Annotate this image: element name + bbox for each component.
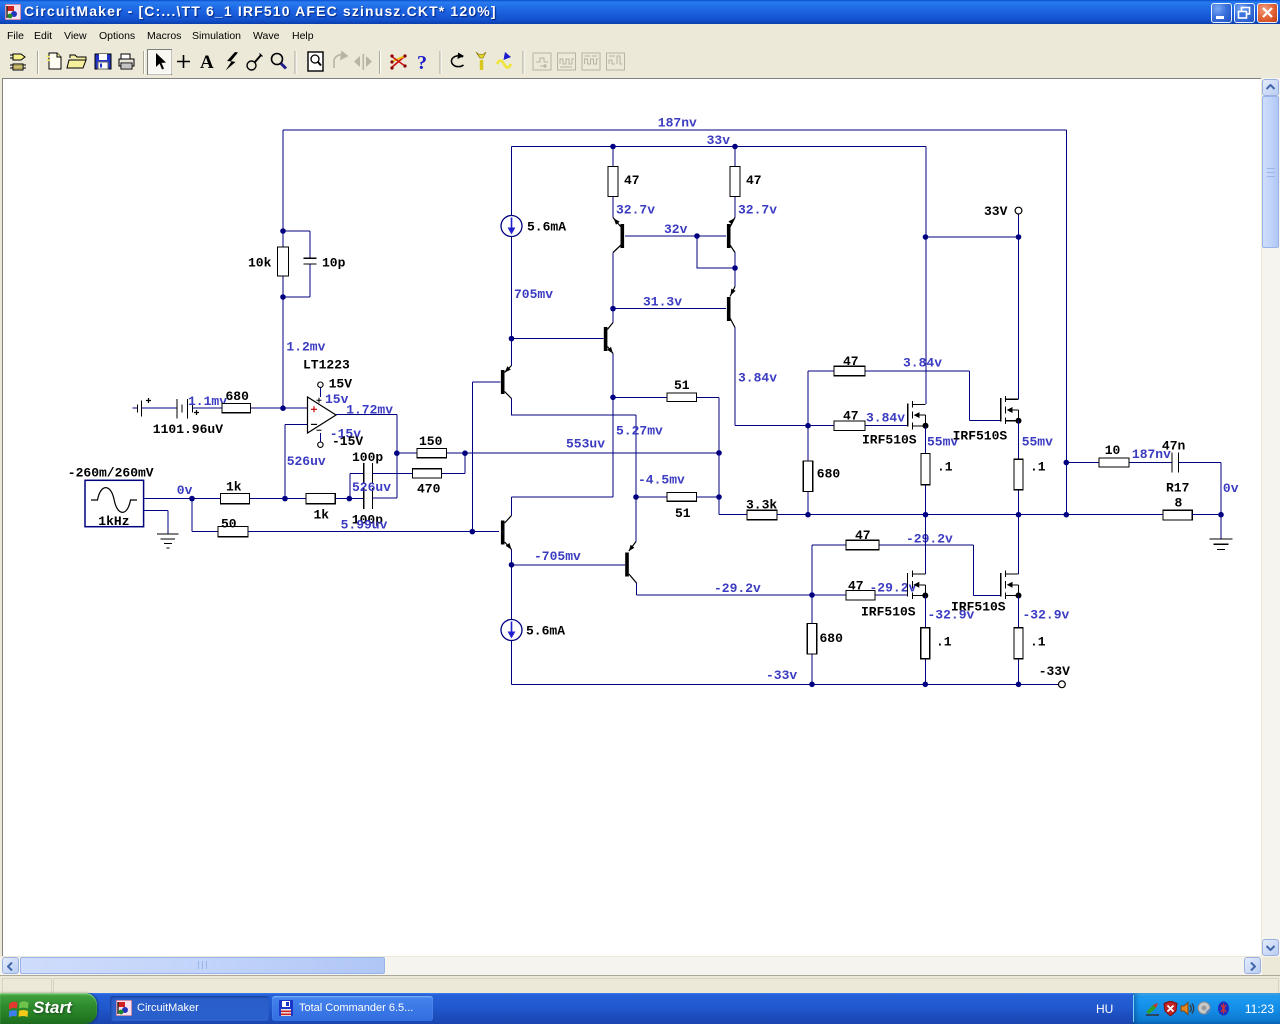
battery V2 input offset: [133, 398, 152, 417]
19 wave probe: [497, 52, 511, 68]
wire -705mv base line: [512, 564, 626, 566]
20-23 disabled scopes: [533, 53, 625, 70]
wire lower cap to output node: [372, 453, 397, 498]
svg-text:-29.2v: -29.2v: [906, 532, 953, 547]
svg-text:47: 47: [843, 354, 859, 369]
18 wrench: [476, 52, 486, 70]
svg-text:5.6mA: 5.6mA: [526, 624, 565, 639]
13 rotate disabled: [334, 52, 347, 68]
resistor 47 gate lower A: [846, 528, 1001, 596]
svg-text:47: 47: [855, 528, 871, 543]
node dot -29.2v branch: [809, 592, 815, 598]
wire output node vertical: [1065, 130, 1067, 515]
svg-text:33V: 33V: [984, 204, 1008, 219]
svg-text:3.3k: 3.3k: [746, 498, 777, 513]
wire op-amp output: [336, 415, 397, 454]
resistor 680 input: [193, 389, 308, 413]
svg-text:680: 680: [820, 631, 844, 646]
node dot 553uv left: [462, 450, 468, 456]
svg-text:.1: .1: [936, 635, 952, 650]
node dot base rail: [470, 529, 476, 535]
svg-text:IRF510S: IRF510S: [951, 600, 1006, 615]
wire Q1-Q2 base link 32v: [625, 235, 726, 237]
svg-text:47: 47: [843, 409, 859, 424]
resistor 47 top-left: [608, 147, 640, 218]
svg-text:51: 51: [674, 378, 690, 393]
7 plus: [177, 55, 190, 68]
resistor R17 8ohm load: [1163, 481, 1221, 521]
svg-text:47: 47: [848, 579, 864, 594]
wire 32v node to Q2 collector: [697, 236, 735, 268]
capacitor 10p: [283, 231, 346, 297]
svg-text:-705mv: -705mv: [534, 549, 581, 564]
svg-text:47n: 47n: [1162, 439, 1186, 454]
wire 50 rail to transistor bases: [248, 531, 499, 533]
resistor 47 top-right: [730, 147, 762, 218]
node dot 33v terminal drop: [1016, 234, 1022, 240]
svg-text:33v: 33v: [707, 133, 731, 148]
terminal 33V: [984, 204, 1022, 219]
wire 51 node drop: [718, 397, 720, 514]
wire 10k to op-amp plus input: [282, 297, 284, 408]
svg-text:705mv: 705mv: [514, 287, 553, 302]
svg-text:3.84v: 3.84v: [738, 371, 777, 386]
svg-text:3.84v: 3.84v: [903, 356, 942, 371]
mosfet M4 IRF510S lower-right: [951, 571, 1022, 615]
svg-text:553uv: 553uv: [566, 437, 605, 452]
node dot -705mv: [509, 562, 515, 568]
svg-text:3.84v: 3.84v: [866, 411, 905, 426]
node dot tail junction: [509, 336, 515, 342]
svg-text:680: 680: [817, 467, 841, 482]
node dot source rail left: [923, 512, 929, 518]
svg-text:-33V: -33V: [1039, 664, 1070, 679]
svg-text:1k: 1k: [314, 507, 330, 522]
node dot 3.84v: [805, 423, 811, 429]
svg-text:-32.9v: -32.9v: [1023, 608, 1070, 623]
capacitor 47n: [1162, 439, 1186, 473]
svg-text:1k: 1k: [226, 480, 242, 495]
svg-text:1kHz: 1kHz: [98, 514, 129, 529]
svg-text:526uv: 526uv: [352, 480, 391, 495]
svg-text:1.72mv: 1.72mv: [346, 402, 393, 417]
node dot output rail right: [1064, 512, 1070, 518]
wire top feedback rail 187nv: [283, 129, 1066, 131]
svg-text:-15V: -15V: [332, 434, 363, 449]
4 save: [95, 54, 111, 69]
wire output rail: [777, 514, 1163, 516]
wire 3.84v gate feed: [735, 425, 808, 427]
svg-text:47: 47: [624, 173, 640, 188]
wire Q2 collector to junction: [734, 253, 736, 287]
12 doc zoom: [308, 52, 323, 71]
svg-text:51: 51: [675, 506, 691, 521]
svg-text:A: A: [200, 52, 214, 73]
battery V1 1101.96uV: [153, 399, 223, 437]
resistor .1 upper-right: [1014, 421, 1046, 515]
node dot 680 lower rail: [809, 682, 815, 688]
resistor 3.3k: [719, 498, 777, 520]
transistor Q4 npn upper middle: [604, 323, 613, 354]
node dot plus input: [280, 405, 286, 411]
ground output: [1210, 539, 1233, 550]
transistor Q7 pnp lower VAS: [625, 542, 636, 584]
node dot source rail right: [1016, 512, 1022, 518]
wire Q6 base drop to 50 rail: [471, 382, 473, 531]
node dot 10k bottom: [280, 294, 286, 300]
resistor 51 upper: [613, 378, 719, 402]
svg-text:0v: 0v: [177, 483, 193, 498]
9 bolt: [226, 52, 239, 71]
svg-text:1.1mv: 1.1mv: [188, 394, 227, 409]
node dot rail left 47: [610, 144, 616, 150]
svg-text:5.27mv: 5.27mv: [616, 424, 663, 439]
svg-text:100p: 100p: [352, 450, 383, 465]
svg-text:-29.2v: -29.2v: [870, 581, 917, 596]
wire upper cap to 470: [372, 472, 412, 474]
resistor 680 lower bias: [807, 595, 843, 684]
op-amp positive supply pin 15V: [318, 377, 353, 407]
wire -33v bottom rail: [512, 683, 1059, 685]
mosfet M2 IRF510S upper-right: [953, 396, 1022, 444]
node dot 10k top: [280, 228, 286, 234]
node dot zobel rail: [1218, 512, 1224, 518]
wire inverting input: [285, 424, 308, 498]
resistor 1k first: [221, 480, 250, 504]
svg-text:32v: 32v: [664, 222, 688, 237]
svg-text:-4.5mv: -4.5mv: [638, 473, 685, 488]
transistor Q2 pnp top-right: [727, 218, 735, 253]
wire M4 drain up: [1018, 515, 1020, 574]
wire caps left branch up: [350, 473, 363, 498]
op-amp U1 LT1223: [303, 358, 350, 434]
resistor 10k: [248, 231, 289, 297]
wire Q3 collector down 3.84v: [734, 328, 736, 426]
resistor 680 upper bias: [803, 426, 840, 515]
wire Q5 emitter down: [511, 550, 513, 565]
taskbar: [0, 993, 1280, 1024]
svg-text:150: 150: [419, 434, 443, 449]
svg-text:187nv: 187nv: [658, 116, 697, 131]
svg-text:8: 8: [1175, 496, 1183, 511]
node dot 553uv right: [716, 450, 722, 456]
wire Q7 collector down-right -29.2v: [637, 583, 847, 595]
wire zobel down: [1179, 463, 1222, 539]
3 open: [67, 55, 86, 68]
ground source: [157, 534, 179, 548]
resistor 150: [397, 434, 465, 458]
transistor Q6 pnp upper-left small: [501, 366, 512, 399]
svg-text:1101.96uV: 1101.96uV: [153, 422, 223, 437]
toolbar: [0, 48, 1280, 77]
node dot bottom rail M4: [1016, 682, 1022, 688]
signal source V3 sine 1kHz: [68, 466, 154, 529]
resistor 47 gate lower B: [846, 579, 908, 601]
wire between 1k resistors: [250, 498, 307, 500]
resistor 470: [413, 453, 465, 496]
resistor 47 gate upper A: [834, 354, 1001, 421]
14 mirror disabled: [354, 54, 372, 70]
transistor Q3 pnp right cascade: [727, 287, 736, 328]
wire Q5 collector link: [512, 397, 614, 515]
node dot 51 lower tap: [633, 494, 639, 500]
svg-text:IRF510S: IRF510S: [861, 605, 916, 620]
svg-text:55mv: 55mv: [1022, 435, 1053, 450]
svg-text:R17: R17: [1166, 481, 1189, 496]
wire Q4 base from current source: [512, 338, 604, 340]
svg-text:32.7v: 32.7v: [616, 203, 655, 218]
node dot rail right 47: [732, 144, 738, 150]
svg-text:.1: .1: [937, 460, 953, 475]
current source 5.6mA lower: [501, 565, 565, 685]
svg-text:15V: 15V: [329, 377, 353, 392]
node dot 32v: [694, 233, 700, 239]
wire Q1 collector down: [612, 253, 614, 309]
svg-text:10p: 10p: [322, 256, 346, 271]
svg-text:IRF510S: IRF510S: [862, 433, 917, 448]
transistor Q5 npn lower-left: [501, 516, 512, 550]
resistor 47 gate upper B: [808, 409, 908, 431]
node dot output feedback: [394, 450, 400, 456]
svg-text:47: 47: [746, 173, 762, 188]
node dot 680 rail: [805, 512, 811, 518]
wire lower bias branch: [812, 545, 846, 595]
wire 33V feed: [926, 214, 1019, 399]
6 cursor pressed: [148, 50, 172, 75]
vertical scrollbar: [1262, 78, 1280, 957]
svg-text:10k: 10k: [248, 256, 272, 271]
svg-text:15v: 15v: [325, 392, 349, 407]
svg-text:LT1223: LT1223: [303, 358, 350, 373]
wire Q4 emitter down: [612, 354, 614, 398]
wire left feedback drop: [282, 130, 284, 231]
wire Q6 base: [472, 381, 500, 383]
svg-text:5.6mA: 5.6mA: [527, 220, 566, 235]
wire 50 rail from source: [192, 499, 218, 532]
node dot source output: [189, 496, 195, 502]
17 reset: [451, 53, 464, 67]
svg-text:?: ?: [417, 52, 427, 74]
svg-text:5.99uv: 5.99uv: [341, 518, 388, 533]
svg-text:.1: .1: [1030, 635, 1046, 650]
wire 33v rail corner down to upper-left mosfet drain: [925, 147, 927, 405]
svg-text:.1: .1: [1030, 460, 1046, 475]
wire source output: [144, 498, 221, 500]
node dot Q4 emitter 51 tap: [610, 395, 616, 401]
11 zoom: [272, 54, 287, 69]
menu bar: [0, 24, 1280, 49]
node dot zobel tap: [1064, 460, 1070, 466]
svg-text:-260m/260mV: -260m/260mV: [68, 466, 154, 481]
svg-text:IRF510S: IRF510S: [953, 429, 1008, 444]
5 print: [119, 54, 134, 69]
capacitor 100p upper: [352, 450, 383, 484]
wire source ground stub: [144, 511, 168, 534]
wire 31.3v base line: [613, 308, 726, 310]
wire Q6 collector across to VAS: [512, 399, 637, 542]
wire 553uv feedback line: [465, 452, 719, 454]
svg-text:1.2mv: 1.2mv: [286, 340, 325, 355]
capacitor 100p lower: [352, 488, 383, 527]
svg-text:526uv: 526uv: [287, 454, 326, 469]
wire battery link: [142, 407, 178, 409]
2 new: [47, 53, 61, 69]
svg-text:-33v: -33v: [766, 668, 797, 683]
svg-text:680: 680: [226, 389, 250, 404]
node dot caps left: [347, 496, 353, 502]
node dot inverting junction: [282, 496, 288, 502]
svg-text:32.7v: 32.7v: [738, 203, 777, 218]
resistor 10 zobel: [1066, 443, 1172, 467]
current source 5.6mA upper: [501, 147, 566, 339]
node dot 31.3v: [610, 306, 616, 312]
terminal -33V: [1039, 664, 1070, 688]
node dot 51 lower right: [716, 494, 722, 500]
resistor 50: [218, 517, 248, 537]
resistor 51 lower: [636, 493, 719, 521]
wire Q6 emitter up to tail: [511, 339, 513, 366]
mosfet M3 IRF510S lower-left: [861, 571, 928, 620]
mosfet M1 IRF510S upper-left: [862, 401, 929, 448]
svg-text:470: 470: [417, 482, 441, 497]
node dot 33v corner: [923, 234, 929, 240]
svg-text:50: 50: [221, 517, 237, 532]
1 hierarchy: [10, 54, 26, 70]
wire Q4 collector up: [612, 309, 614, 323]
svg-text:10: 10: [1105, 443, 1121, 458]
wire 1k to caps node: [335, 498, 363, 500]
wire 33v supply rail: [512, 146, 927, 148]
svg-text:31.3v: 31.3v: [643, 295, 682, 310]
svg-text:-29.2v: -29.2v: [714, 581, 761, 596]
separators: [38, 51, 525, 74]
resistor .1 lower-right: [1014, 596, 1046, 685]
svg-text:0v: 0v: [1223, 481, 1239, 496]
resistor .1 upper-left: [921, 426, 953, 515]
10 probe: [247, 54, 263, 71]
resistor .1 lower-left: [921, 596, 952, 685]
resistor 1k second: [306, 493, 335, 522]
transistor Q1 pnp top-left: [613, 218, 624, 253]
wire upper bias branch: [808, 371, 834, 426]
node dot bottom rail M3: [923, 682, 929, 688]
wire M3 drain up: [924, 515, 926, 574]
15 sim colors: [390, 54, 406, 69]
horizontal scrollbar: [0, 957, 1262, 975]
node dot Q2 collector: [732, 265, 738, 271]
title bar: [0, 0, 1280, 24]
op-amp negative supply pin -15V: [318, 427, 364, 450]
